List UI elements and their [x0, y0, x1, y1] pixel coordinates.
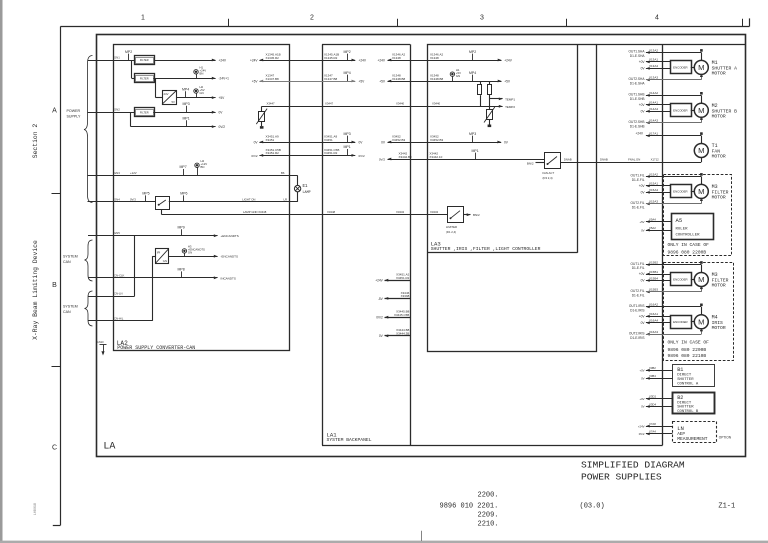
LED H1 in LA3 — [450, 68, 461, 81]
wire TEMP1 — [489, 97, 515, 101]
svg-text:GN1: GN1 — [114, 56, 120, 60]
wire +5V converter output — [176, 96, 225, 100]
svg-text:X1712: X1712 — [651, 158, 660, 162]
svg-text:SYSTEM: SYSTEM — [63, 255, 78, 259]
svg-text:GN3: GN3 — [114, 171, 120, 175]
svg-text:SHUTTER: SHUTTER — [677, 378, 694, 382]
filter FL3 — [135, 108, 155, 117]
svg-text:LIGHT ON: LIGHT ON — [242, 197, 255, 201]
wire +ENCANDTS row — [88, 231, 239, 238]
svg-text:GN5: GN5 — [114, 231, 120, 235]
svg-text:D1-E.IRIS: D1-E.IRIS — [630, 336, 644, 340]
test point MP1 in LA2 — [183, 116, 190, 126]
svg-text:MP6: MP6 — [180, 192, 187, 196]
svg-text:FAN ACT: FAN ACT — [543, 171, 555, 175]
svg-text:FILTER: FILTER — [140, 76, 149, 80]
svg-text:0V/2: 0V/2 — [219, 125, 226, 129]
wire branch to filter FL2 — [132, 60, 135, 79]
svg-text:OUT2.SHB: OUT2.SHB — [629, 120, 645, 124]
svg-text:CN-CLK: CN-CLK — [114, 273, 125, 277]
svg-text:X1345.R2: X1345.R2 — [324, 56, 338, 60]
svg-text:CN-H/L: CN-H/L — [114, 316, 124, 320]
wire 0V/2 to LN — [639, 430, 673, 436]
svg-text:0V/2: 0V/2 — [251, 154, 258, 158]
svg-text:OUT1.FIL: OUT1.FIL — [631, 262, 645, 266]
wire +12V rail GN3 — [88, 171, 298, 176]
svg-text:X3440: X3440 — [432, 102, 441, 106]
svg-text:MP3: MP3 — [344, 132, 351, 136]
wire +24V filter output — [154, 59, 227, 63]
svg-text:+5V: +5V — [379, 79, 386, 83]
svg-text:SHUTTER: SHUTTER — [677, 406, 694, 410]
label fan act — [543, 171, 555, 180]
svg-text:MOTOR: MOTOR — [712, 325, 726, 331]
varistor in LA2 on temp row — [256, 106, 267, 128]
svg-text:X3434: X3434 — [430, 210, 439, 214]
svg-text:+5V: +5V — [252, 79, 259, 83]
ground stub CN GND — [97, 340, 107, 356]
svg-text:DNAB: DNAB — [600, 158, 608, 162]
wire +5V to A5 — [639, 217, 671, 223]
svg-text:GN: GN — [456, 74, 460, 78]
svg-text:D1-E.SHA: D1-E.SHA — [630, 54, 646, 58]
svg-text:MP8: MP8 — [178, 268, 185, 272]
svg-text:BN: BN — [200, 72, 204, 76]
svg-text:MEASUREMENT: MEASUREMENT — [677, 436, 708, 442]
svg-text:X1347.B8: X1347.B8 — [324, 77, 338, 81]
svg-text:D1-E.FIL: D1-E.FIL — [632, 205, 645, 209]
svg-text:Section 2: Section 2 — [32, 124, 39, 159]
svg-text:+5V: +5V — [219, 96, 226, 100]
svg-text:X3434: X3434 — [396, 210, 405, 214]
svg-text:OUT1.SHA: OUT1.SHA — [629, 50, 646, 54]
relay K1 light switch — [156, 197, 170, 210]
motor M3 filter alternate with encoder — [631, 260, 729, 297]
svg-text:INCANDTS: INCANDTS — [221, 276, 236, 280]
dashed option box LN AEP measurement — [673, 422, 717, 443]
zone number 2 — [310, 15, 314, 22]
svg-text:RULER: RULER — [676, 228, 689, 232]
wire row 0V/2 distribution — [251, 145, 544, 165]
svg-text:OUT2.IRIS: OUT2.IRIS — [629, 331, 645, 335]
svg-text:M3: M3 — [712, 184, 718, 190]
test point MP3 in LA2 — [183, 102, 190, 112]
right cable duct top line — [597, 44, 746, 46]
wire 0V filter output — [153, 111, 223, 115]
svg-text:24V: 24V — [164, 92, 169, 96]
wire 0V input GN2 — [88, 108, 135, 113]
wire row +24V distribution — [250, 50, 513, 63]
svg-text:+0V: +0V — [639, 369, 644, 373]
svg-text:M1: M1 — [712, 60, 718, 66]
svg-text:X14A4: X14A4 — [649, 107, 658, 111]
thermistor in LA3 — [484, 107, 495, 127]
svg-text:CN-LN: CN-LN — [114, 292, 123, 296]
svg-text:BN/2: BN/2 — [527, 162, 534, 166]
svg-text:+0V: +0V — [639, 315, 646, 319]
svg-text:+24V: +24V — [377, 58, 385, 62]
svg-text:MP2: MP2 — [125, 50, 132, 54]
svg-text:OPTION: OPTION — [719, 436, 732, 440]
svg-text:OUT1.IRIS: OUT1.IRIS — [629, 304, 645, 308]
test point MP5 — [142, 192, 149, 202]
test point MP4 in LA2 — [182, 87, 189, 97]
svg-text:D1-E.SHA: D1-E.SHA — [630, 81, 646, 85]
svg-text:0V: 0V — [641, 405, 645, 409]
svg-text:OUT1.SHB: OUT1.SHB — [629, 93, 645, 97]
svg-text:DIRECT: DIRECT — [677, 374, 692, 378]
left margin text X-Ray Beam Limiting Device — [32, 240, 39, 340]
svg-text:ENCODER: ENCODER — [673, 65, 687, 69]
motor M1 shutter A with encoder — [629, 48, 738, 85]
controller B2 direct shutter control B — [673, 393, 715, 415]
svg-text:X14A3: X14A3 — [649, 119, 658, 123]
svg-text:A5: A5 — [676, 217, 683, 224]
LED H4 +12V — [195, 159, 207, 175]
svg-text:SYSTEM: SYSTEM — [63, 305, 78, 309]
svg-text:X1348.B8: X1348.B8 — [430, 77, 444, 81]
LED H3 — [182, 245, 205, 257]
svg-text:+12V: +12V — [130, 171, 137, 175]
svg-text:A: A — [52, 108, 57, 115]
svg-text:GN2: GN2 — [114, 108, 120, 112]
svg-text:3: 3 — [480, 15, 484, 22]
row letter B — [52, 282, 57, 289]
svg-text:+0V: +0V — [639, 103, 646, 107]
svg-text:+ENCANDTS: +ENCANDTS — [221, 234, 239, 238]
svg-text:M: M — [698, 187, 704, 196]
note only in case of 2200 — [668, 242, 710, 256]
dashed option box filter and iris motors — [664, 263, 734, 361]
svg-text:X3451: X3451 — [266, 138, 275, 142]
LED H2 +5V — [194, 85, 205, 98]
svg-text:0V/2: 0V/2 — [379, 157, 386, 161]
label LA1 — [327, 432, 372, 443]
svg-text:OUT2.FIL: OUT2.FIL — [631, 289, 645, 293]
svg-text:4: 4 — [655, 15, 659, 22]
svg-text:MP2: MP2 — [469, 50, 476, 54]
svg-text:+5V: +5V — [639, 220, 644, 224]
svg-text:SUPPLY: SUPPLY — [67, 115, 82, 119]
bottom small fold mark — [421, 531, 423, 541]
svg-text:X15B4: X15B4 — [649, 276, 658, 280]
svg-text:SIMPLIFIED DIAGRAM: SIMPLIFIED DIAGRAM — [581, 459, 685, 470]
svg-text:MOTOR: MOTOR — [712, 283, 726, 289]
wire row +5V distribution — [252, 71, 511, 84]
svg-text:9896 080 2200B: 9896 080 2200B — [668, 250, 707, 256]
svg-text:X3447: X3447 — [325, 102, 334, 106]
wire 0V to A5 — [641, 226, 671, 232]
svg-text:X3451.R2: X3451.R2 — [324, 151, 338, 155]
svg-text:MP4: MP4 — [469, 71, 476, 75]
svg-text:+24V: +24V — [375, 279, 383, 283]
svg-text:+24V: +24V — [250, 58, 258, 62]
motor M3 filter with encoder — [631, 172, 729, 209]
svg-text:B2: B2 — [677, 395, 683, 401]
svg-text:0V/2: 0V/2 — [639, 432, 645, 436]
svg-text:LN: LN — [677, 425, 684, 432]
svg-text:MP4: MP4 — [182, 87, 189, 91]
svg-text:M: M — [698, 106, 704, 115]
note only in case of 2200 2210 — [668, 340, 710, 360]
wire fan switch output DNAB — [560, 158, 702, 163]
svg-text:Z1-1: Z1-1 — [718, 502, 735, 510]
svg-text:ONLY IN CASE OF: ONLY IN CASE OF — [668, 340, 710, 346]
wire -24V filter output — [153, 77, 229, 81]
svg-text:2: 2 — [310, 15, 314, 22]
svg-text:+24V: +24V — [359, 58, 367, 62]
svg-text:LIMITER: LIMITER — [446, 225, 457, 229]
svg-text:X15A2: X15A2 — [649, 172, 658, 176]
svg-text:CAN: CAN — [63, 310, 71, 314]
svg-text:LHB09B: LHB09B — [34, 503, 38, 515]
wire 0V CAN row MP8 — [88, 273, 236, 280]
svg-text:X15B1: X15B1 — [649, 270, 658, 274]
filter FL2 — [135, 74, 155, 83]
svg-text:MOTOR: MOTOR — [712, 194, 726, 200]
svg-text:X3448: X3448 — [258, 210, 267, 214]
svg-text:-ENCANDTS: -ENCANDTS — [221, 255, 239, 259]
filter FL1 — [135, 56, 155, 65]
wire +24V input GN1 — [88, 56, 135, 61]
svg-text:ENCODER: ENCODER — [673, 278, 687, 282]
svg-text:ONLY IN CASE OF: ONLY IN CASE OF — [668, 242, 710, 248]
svg-text:X1348: X1348 — [392, 56, 401, 60]
svg-text:B: B — [52, 282, 57, 289]
svg-text:D1-E.SHB: D1-E.SHB — [630, 124, 645, 128]
svg-text:BN/2: BN/2 — [473, 213, 480, 217]
svg-text:POWER SUPPLIES: POWER SUPPLIES — [581, 471, 662, 482]
wire stub +24V to backpanel — [375, 273, 410, 283]
controller A5 ruler — [672, 214, 714, 240]
svg-text:MOTOR: MOTOR — [712, 113, 726, 119]
label LA3 — [431, 240, 541, 252]
left margin small code text — [34, 503, 38, 515]
svg-text:X3447: X3447 — [267, 102, 276, 106]
outer border top line with zone ticks — [60, 18, 749, 26]
test point MP7 — [180, 165, 187, 175]
svg-text:9896 010 2201.: 9896 010 2201. — [440, 502, 499, 510]
svg-text:+24V: +24V — [504, 58, 512, 62]
svg-text:+24V: +24V — [219, 59, 227, 63]
svg-text:FNAL.ON: FNAL.ON — [628, 158, 640, 162]
svg-text:+0V: +0V — [639, 397, 644, 401]
svg-text:X3452.B3: X3452.B3 — [430, 138, 444, 142]
wire 0V/3 input GN4 — [88, 197, 156, 201]
wire CAN branch vertical 2 — [88, 256, 155, 321]
svg-text:X1345.R2: X1345.R2 — [266, 56, 280, 60]
svg-text:IPI: IPI — [157, 250, 161, 254]
svg-text:DIRECT: DIRECT — [677, 401, 692, 405]
svg-text:POWER SUPPLY CONVERTER-CAN: POWER SUPPLY CONVERTER-CAN — [117, 345, 195, 351]
zone number 1 — [141, 15, 145, 22]
svg-text:M: M — [698, 318, 704, 327]
svg-text:(D1 2,4): (D1 2,4) — [446, 230, 456, 234]
row letter C — [52, 445, 57, 452]
svg-text:+0V: +0V — [639, 272, 646, 276]
resistor R1 in LA3 — [478, 81, 482, 106]
svg-text:GN: GN — [163, 259, 167, 263]
revision 03.0 — [580, 502, 605, 510]
svg-text:MP1: MP1 — [183, 116, 190, 120]
svg-text:X5A2: X5A2 — [649, 226, 656, 230]
motor M4 iris with encoder — [629, 303, 726, 340]
brace system can 2 — [63, 291, 93, 326]
svg-text:GN: GN — [188, 251, 192, 255]
cable bus vertical line — [662, 45, 664, 445]
wire +0V to B2 — [639, 395, 672, 401]
svg-text:SHUTTER ,IRIS ,FILTER ,LIGHT: SHUTTER ,IRIS ,FILTER ,LIGHT CONTROLLER — [431, 246, 541, 252]
svg-text:X3451.R2: X3451.R2 — [396, 276, 410, 280]
svg-text:BN: BN — [201, 165, 205, 169]
resistor R2 in LA3 — [488, 81, 492, 110]
wire +24V to LN — [638, 422, 673, 428]
LED H1 +24V — [194, 66, 206, 79]
svg-text:OUT1.FIL: OUT1.FIL — [631, 174, 645, 178]
svg-text:X15B2: X15B2 — [649, 260, 658, 264]
brace power supply input — [67, 56, 93, 203]
svg-text:MP3: MP3 — [469, 132, 476, 136]
svg-text:-5V: -5V — [378, 297, 384, 301]
svg-text:X3398: X3398 — [401, 294, 410, 298]
svg-text:LA: LA — [103, 441, 115, 452]
test point MP2 in LA2 — [125, 50, 132, 60]
wire LAMP GND row — [162, 209, 448, 214]
svg-text:MP1: MP1 — [472, 149, 479, 153]
sheet number Z1-1 — [718, 502, 735, 510]
inner frame unit LA boundary — [97, 35, 746, 457]
svg-text:X1348: X1348 — [430, 56, 439, 60]
svg-text:MOTOR: MOTOR — [712, 70, 726, 76]
svg-text:X3448: X3448 — [327, 210, 336, 214]
svg-text:X16A3: X16A3 — [649, 330, 658, 334]
svg-text:ENCODER: ENCODER — [673, 108, 687, 112]
svg-text:M: M — [698, 275, 704, 284]
svg-text:+5V: +5V — [359, 79, 366, 83]
svg-text:0V: 0V — [641, 377, 645, 381]
svg-text:M: M — [698, 146, 704, 155]
row letter A — [52, 108, 57, 115]
svg-text:D1-E.FIL: D1-E.FIL — [632, 266, 645, 270]
wire 0V to B1 — [641, 374, 672, 380]
left margin text Section 2 — [32, 124, 39, 159]
svg-text:X16A1: X16A1 — [649, 312, 658, 316]
svg-text:ENCODER: ENCODER — [673, 189, 687, 193]
test point MP8 — [178, 268, 185, 278]
svg-text:X13A4: X13A4 — [649, 64, 658, 68]
svg-text:-24V+1: -24V+1 — [219, 77, 230, 81]
svg-text:0V/2: 0V/2 — [359, 154, 366, 158]
lamp E1 — [294, 185, 310, 195]
svg-text:CAN: CAN — [63, 260, 71, 264]
svg-text:0V: 0V — [641, 228, 645, 232]
svg-text:OUT2.SHA: OUT2.SHA — [629, 77, 646, 81]
svg-text:DNAB: DNAB — [564, 158, 572, 162]
svg-text:LAMP GND: LAMP GND — [243, 210, 258, 214]
svg-text:X3445.C5B: X3445.C5B — [394, 313, 409, 317]
unit designator LA — [103, 441, 115, 452]
relay fan actuator in LA3 — [545, 153, 561, 169]
document number list — [440, 491, 499, 528]
svg-text:GN4: GN4 — [114, 197, 120, 201]
svg-text:2200.: 2200. — [478, 491, 499, 499]
svg-text:+0V: +0V — [639, 60, 646, 64]
svg-text:9896 080 2210B: 9896 080 2210B — [668, 353, 707, 359]
svg-text:D1-E.SHB: D1-E.SHB — [630, 97, 645, 101]
svg-text:X3451: X3451 — [324, 138, 333, 142]
label option — [719, 436, 732, 440]
svg-text:POWER: POWER — [67, 109, 81, 113]
wire lamp feed down — [281, 171, 298, 186]
svg-text:X3451.R2: X3451.R2 — [266, 151, 280, 155]
test point MP9 — [178, 226, 185, 236]
svg-text:MP4: MP4 — [344, 71, 351, 75]
wire +0V to B1 — [639, 366, 672, 372]
svg-text:MOTOR: MOTOR — [712, 154, 726, 160]
relay limiter in LA3 — [448, 207, 464, 223]
svg-text:M3: M3 — [712, 272, 718, 278]
svg-text:E1: E1 — [303, 185, 309, 189]
svg-text:X3452.B3: X3452.B3 — [392, 138, 406, 142]
svg-text:+24V: +24V — [635, 132, 643, 136]
svg-text:SYSTEM BACKPANEL: SYSTEM BACKPANEL — [327, 437, 372, 443]
motor M2 shutter B with encoder — [629, 91, 738, 128]
svg-text:X3442.10: X3442.10 — [429, 155, 442, 159]
svg-text:MP3: MP3 — [183, 102, 190, 106]
brace system can 1 — [63, 240, 93, 281]
label LA2 — [117, 340, 196, 351]
svg-text:X3B2: X3B2 — [649, 366, 656, 370]
svg-text:X3B4: X3B4 — [649, 374, 656, 378]
svg-text:D1-E.FIL: D1-E.FIL — [632, 294, 645, 298]
svg-text:X1347.B8: X1347.B8 — [266, 77, 280, 81]
svg-text:LAMP: LAMP — [303, 191, 311, 195]
module LA1 system backpanel box — [322, 44, 663, 445]
svg-text:B6: B6 — [281, 171, 285, 175]
svg-text:MP5: MP5 — [142, 192, 149, 196]
svg-text:+24V: +24V — [638, 424, 645, 428]
svg-text:TEMP2: TEMP2 — [505, 105, 515, 109]
svg-text:ENCODER: ENCODER — [673, 320, 687, 324]
svg-text:0V/2: 0V/2 — [376, 316, 383, 320]
module LA2 power supply converter box — [114, 45, 290, 351]
svg-text:X17A1: X17A1 — [649, 131, 658, 135]
svg-text:2210.: 2210. — [478, 521, 499, 529]
wire stub 0V to backpanel — [379, 328, 410, 338]
wire stub 0V/2 to backpanel — [376, 310, 410, 320]
dc converter N4 24V to 5V — [162, 91, 177, 105]
dashed option box filter motor and ruler controller — [664, 175, 732, 256]
svg-text:X3D4: X3D4 — [649, 402, 656, 406]
svg-text:CONTROL B: CONTROL B — [677, 410, 699, 414]
wire limiter output BN/2 — [463, 213, 480, 217]
svg-text:X3444.3B: X3444.3B — [396, 332, 409, 336]
svg-text:MP9: MP9 — [178, 226, 185, 230]
svg-text:X7A8: X7A8 — [649, 422, 656, 426]
wire row 0V distribution — [254, 132, 509, 145]
label limiter — [446, 225, 457, 234]
svg-text:X1348.B8: X1348.B8 — [392, 77, 406, 81]
svg-text:MP1: MP1 — [344, 145, 351, 149]
svg-text:5V: 5V — [171, 100, 175, 104]
svg-text:OUT2.FIL: OUT2.FIL — [631, 201, 645, 205]
wire -ENCANDTS output — [169, 255, 239, 259]
svg-text:C: C — [52, 445, 57, 452]
fan motor T1 — [635, 131, 725, 159]
svg-text:X-Ray Beam Limiting Device: X-Ray Beam Limiting Device — [32, 240, 39, 340]
svg-text:CONTROL A: CONTROL A — [677, 382, 699, 386]
svg-text:CONTROLLER: CONTROLLER — [676, 234, 701, 238]
